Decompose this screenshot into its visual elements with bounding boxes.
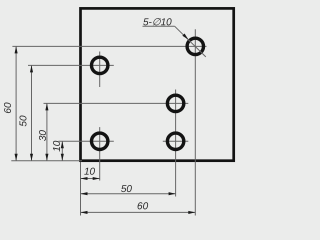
svg-text:50: 50 <box>19 115 30 127</box>
leader 5-Ø10 shoulder line <box>143 25 175 27</box>
svg-text:10: 10 <box>84 167 96 178</box>
dimension line 10 bottom horizontal <box>81 177 100 180</box>
dimension line 60 bottom horizontal <box>81 211 196 214</box>
hole H1 (10,50) <box>92 57 108 73</box>
dimension line 50 bottom horizontal <box>81 192 176 195</box>
svg-text:60: 60 <box>3 102 14 114</box>
centerline holes H3/H5 vertical + extension to bottom dim 50 <box>175 90 177 197</box>
hole H5 (50,10) <box>167 133 183 149</box>
centerline hole H5 horizontal <box>163 140 189 142</box>
centerline hole H2 vertical + extension to bottom dim 60 <box>194 29 196 215</box>
extension line plate left edge extended down <box>80 162 82 216</box>
svg-text:10: 10 <box>52 140 63 152</box>
plate outline <box>81 8 234 160</box>
svg-text:5-∅10: 5-∅10 <box>143 17 172 28</box>
extension line row 60 (top hole row, y=46.4) <box>12 45 206 47</box>
dimension line 10 left vertical <box>61 141 64 160</box>
svg-text:50: 50 <box>121 184 133 195</box>
hole H4 (10,10) <box>92 133 108 149</box>
svg-text:60: 60 <box>137 201 149 212</box>
leader arrowhead at hole H2 rim <box>182 34 188 40</box>
extension line row 50 (hole H1 row, y=65.4) <box>28 64 114 66</box>
centerline hole H4 vertical + extension to bottom dim 10 <box>99 127 101 180</box>
leader 5-Ø10 diagonal line <box>175 26 206 57</box>
hole H2 (60,60) <box>187 38 203 54</box>
svg-text:30: 30 <box>38 130 49 142</box>
hole H3 (50,30) <box>167 95 183 111</box>
dimension line 60 left vertical <box>15 46 18 160</box>
extension line row 10 (hole H4 row, y=141.3) <box>59 140 114 142</box>
extension line row 30 (hole H3 row, y=103.4) <box>44 102 189 104</box>
centerline hole H1 vertical <box>99 52 101 88</box>
dimension line 30 left vertical <box>45 103 48 160</box>
dimension line 50 left vertical <box>30 65 33 160</box>
extension line bottom edge (y=160.7) <box>11 160 82 162</box>
